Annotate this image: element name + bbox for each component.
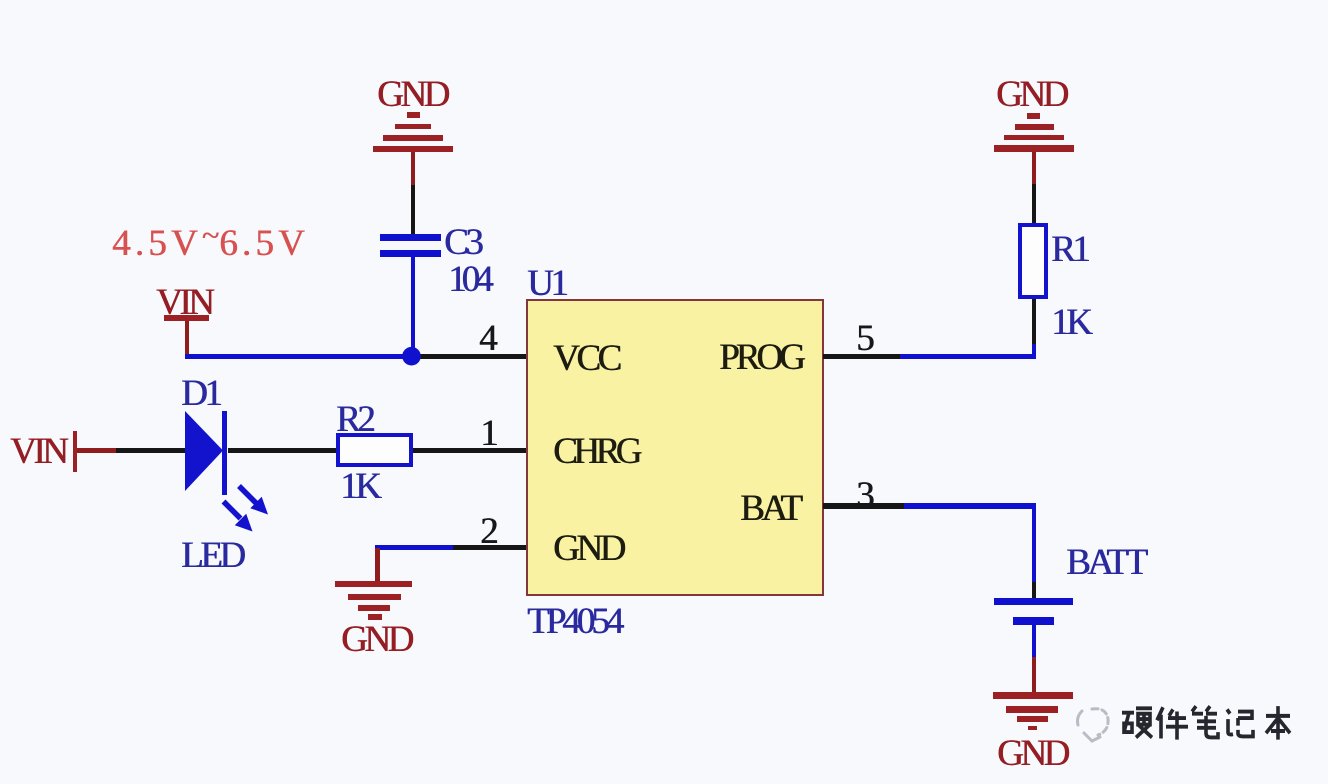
wire: GND pin black segment (453, 545, 526, 550)
designator R1 (1051, 231, 1087, 268)
designator D1 (181, 375, 219, 412)
watermark logo (1072, 703, 1114, 747)
pin number 1 (480, 415, 499, 452)
wire: VIN stem (dark red) (185, 321, 190, 357)
wire: PROG net blue segment (900, 354, 1036, 360)
wire: R1 to ground (red part) (1032, 151, 1037, 184)
wire: down to battery (blue) (1032, 506, 1037, 582)
port VIN bar (vertical) (73, 431, 78, 472)
pin number 3 (856, 477, 875, 514)
capacitor C3 (0, 0, 1328, 1)
pin number 4 (479, 320, 498, 357)
pin name CHRG (553, 433, 638, 470)
wire: down to battery (black) (1032, 582, 1037, 598)
pin name VCC (553, 340, 619, 377)
value 104 (448, 261, 489, 298)
wire: top-left ground stem (red part) (411, 152, 416, 185)
GND label (bottom left ground) (341, 621, 411, 658)
wire: VIN port red segment (77, 448, 116, 453)
pin name BAT (740, 490, 799, 527)
port VIN (top) (156, 284, 211, 321)
designator R2 (336, 401, 372, 438)
value 1K (R1) (1051, 304, 1089, 341)
pin number 5 (856, 320, 875, 357)
wire: VIN to junction (blue, VCC net) (185, 354, 412, 360)
wire: up to R1 (black) (1032, 299, 1037, 344)
wire: PROG pin black segment (823, 354, 900, 360)
resistor R1 body (1018, 223, 1048, 299)
wire: up to R1 (blue corner) (1032, 344, 1037, 356)
硬 (1122, 713, 1134, 732)
GND label (top right ground) (996, 76, 1066, 113)
watermark text 硬件笔记本 (1121, 704, 1293, 752)
label LED (181, 537, 242, 574)
wire: ground to C3 (black part) (411, 185, 416, 234)
label C3 (444, 224, 480, 261)
op-amp U1 TP4054 chip body (526, 299, 824, 596)
GND label (top left ground) (377, 76, 447, 113)
resistor R2 body (336, 433, 413, 467)
wire: battery to ground (blue) (1032, 625, 1037, 658)
wire: junction to VCC pin (black) (412, 354, 526, 360)
ground symbol (bottom left) (0, 0, 1328, 1)
net label BATT (1066, 544, 1145, 581)
wire: GND net blue segment (375, 545, 453, 550)
port VIN bar (164, 315, 209, 321)
ground symbol (inverted earth, top left) (0, 0, 1328, 1)
voltage range text 4.5V~6.5V (112, 219, 309, 262)
pin number 2 (480, 513, 499, 550)
wire: to LED anode (black) (116, 448, 186, 453)
wire: LED cathode to R2 (black) (228, 448, 336, 453)
wire: R1 to ground (black) (1032, 184, 1037, 223)
ground symbol (inverted earth, top right) (0, 0, 1328, 1)
GND label (bottom right ground) (997, 735, 1067, 772)
wire: BAT net blue segment (904, 503, 1036, 509)
件 (1157, 707, 1188, 739)
wire: BAT pin black segment (823, 503, 904, 509)
designator U1 (527, 265, 565, 302)
笔 (1192, 706, 1218, 737)
port VIN (left) (10, 433, 65, 470)
pin name PROG (719, 339, 802, 376)
junction node (401, 346, 422, 367)
wire: C3 to VCC net junction (blue vertical) (411, 257, 416, 356)
value 1K (R2) (340, 468, 378, 505)
wire: R2 to CHRG pin (black) (413, 448, 526, 453)
记 (1227, 709, 1253, 736)
wire: down stem to ground (dark red) (375, 548, 380, 581)
wire: battery to ground (dark red) (1032, 657, 1037, 692)
pin name GND (553, 530, 623, 567)
part number TP4054 (527, 603, 620, 640)
LED D1 diode triangle and cathode bar (183, 406, 231, 496)
本 (1266, 706, 1290, 739)
battery BATT plates (0, 0, 1328, 1)
LED emission arrows (220, 480, 276, 540)
ground symbol (bottom right) (0, 0, 1328, 1)
